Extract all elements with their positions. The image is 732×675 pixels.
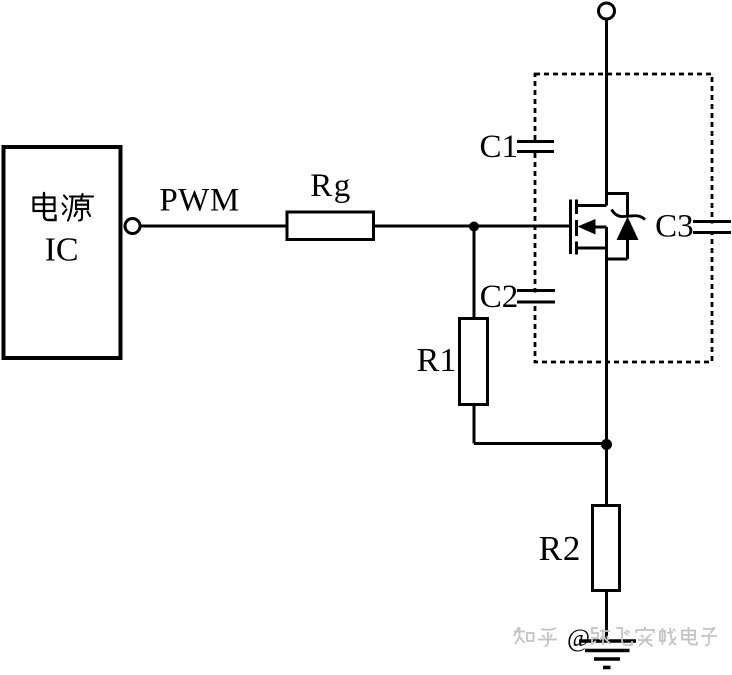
wire R1 leg to source node [474, 442, 607, 445]
body lead [592, 226, 607, 229]
wire drain vertical from top terminal [605, 20, 608, 206]
node B junction dot (source/R1/R2 node) [601, 439, 612, 450]
resistor Rg [287, 212, 374, 240]
resistor R1 [460, 319, 488, 405]
drain lead [575, 204, 607, 207]
战 [660, 628, 676, 645]
电 glyph [34, 193, 56, 220]
body diode triangle [617, 217, 639, 241]
capacitor C2 plates [517, 291, 555, 303]
channel bottom segment [575, 242, 578, 255]
源 glyph [63, 194, 94, 221]
capacitor C3 gap patch [705, 224, 719, 232]
channel middle segment [575, 220, 578, 236]
svg-text:IC: IC [45, 232, 79, 269]
label 电源 (drawn glyphs) [34, 193, 94, 221]
svg-text:R1: R1 [417, 342, 457, 379]
svg-text:@: @ [567, 625, 590, 652]
power IC box [4, 147, 121, 358]
svg-text:Rg: Rg [310, 168, 352, 204]
capacitor C1 plates [517, 142, 554, 152]
capacitor C2 gap patch [528, 293, 543, 301]
gate bar [569, 200, 572, 255]
ground [579, 641, 636, 668]
resistor R2 [593, 506, 620, 591]
电 (small) [682, 627, 697, 645]
dashed box around MOSFET [535, 74, 712, 362]
capacitor C3 plates [693, 222, 731, 233]
子 [701, 628, 717, 646]
node A junction dot (gate node) [469, 222, 479, 232]
capacitor C1 gap patch [528, 143, 543, 151]
张 [592, 628, 611, 645]
transistor Q1 N-MOSFET [571, 200, 607, 255]
body diode branch bottom [607, 239, 628, 259]
实 [636, 627, 654, 646]
wire Rg to gate [373, 225, 571, 228]
body diode cathode bar (curved) [612, 210, 646, 220]
wire R1 bottom down [473, 404, 476, 444]
svg-text:C3: C3 [655, 209, 694, 245]
terminal circle top [599, 3, 615, 19]
IC output terminal circle [125, 219, 140, 234]
wire PWM: IC output to Rg [141, 225, 290, 228]
wire node to R1 top [473, 226, 476, 319]
body diode branch top [607, 192, 628, 217]
source lead [575, 247, 607, 250]
知 [514, 627, 534, 644]
svg-text:R2: R2 [539, 529, 582, 568]
飞 [616, 628, 632, 645]
wire source vertical to ground [605, 227, 608, 641]
svg-text:C1: C1 [480, 129, 519, 165]
乎 [538, 628, 557, 646]
arrow of MOSFET body [578, 219, 596, 235]
svg-text:C2: C2 [480, 279, 519, 315]
watermark 知乎 @张飞实战电子 [514, 625, 717, 652]
svg-text:PWM: PWM [159, 183, 239, 219]
channel top segment [575, 200, 578, 215]
